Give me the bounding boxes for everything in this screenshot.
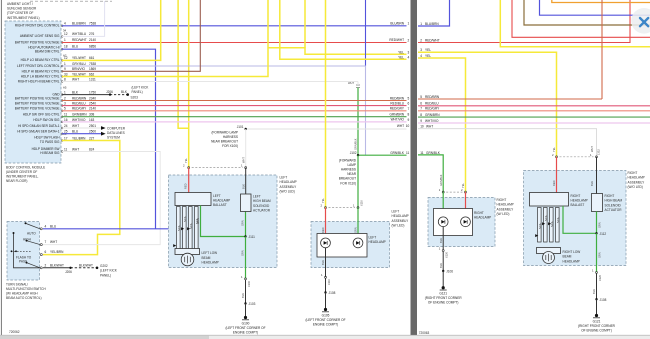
svg-text:(FORWARD LAMP: (FORWARD LAMP xyxy=(211,131,238,135)
svg-text:WHT/VIO: WHT/VIO xyxy=(72,118,86,122)
svg-text:WHT/VIO: WHT/VIO xyxy=(425,119,439,123)
svg-text:(LEFT KICK: (LEFT KICK xyxy=(132,85,150,89)
svg-text:1869: 1869 xyxy=(89,67,96,71)
top bundle wire BRN xyxy=(524,0,650,25)
svg-text:2: 2 xyxy=(321,204,323,208)
svg-text:RED/BLU: RED/BLU xyxy=(390,101,404,105)
switch HIGH contact xyxy=(27,241,40,245)
svg-text:AMBIENT LIGHT /: AMBIENT LIGHT / xyxy=(7,2,33,6)
svg-text:(W/O LED): (W/O LED) xyxy=(280,189,295,193)
svg-text:X120: X120 xyxy=(598,274,602,281)
wire BLK 1750 gnd with J206 splice and S203 xyxy=(62,94,110,96)
svg-text:5: 5 xyxy=(408,97,410,101)
svg-text:A5: A5 xyxy=(63,85,67,89)
svg-text:HEADLAMP: HEADLAMP xyxy=(369,240,386,244)
svg-text:1: 1 xyxy=(64,38,66,42)
wire BLK to J108 xyxy=(325,278,327,292)
wire GRN/BLK from connector down to J102 xyxy=(357,88,359,156)
svg-text:BLU: BLU xyxy=(72,130,79,134)
svg-text:BLK: BLK xyxy=(592,289,596,294)
svg-text:HDLP SW ON SIG: HDLP SW ON SIG xyxy=(33,118,60,122)
wire GRY/BLU 7538 to J102 column xyxy=(62,66,366,155)
led lamps inner box xyxy=(317,234,367,258)
svg-text:HEADLAMP: HEADLAMP xyxy=(202,260,219,264)
svg-text:2: 2 xyxy=(64,96,66,100)
splice J101 xyxy=(245,128,247,130)
svg-text:1: 1 xyxy=(64,91,66,95)
svg-text:ASSEMBLY: ASSEMBLY xyxy=(628,180,646,184)
svg-text:RIGHT FRONT DRL CONTROL: RIGHT FRONT DRL CONTROL xyxy=(15,24,60,28)
wire GRN/BLK row 11 from J102 to edge xyxy=(358,154,407,156)
wire YEL row3 to ballast column xyxy=(418,52,557,157)
wire RED/BLU row6 xyxy=(418,105,650,107)
svg-text:1: 1 xyxy=(590,153,592,157)
svg-text:YEL: YEL xyxy=(461,183,465,188)
svg-text:GRN: GRN xyxy=(598,252,602,258)
svg-text:2: 2 xyxy=(45,263,47,267)
wire WHT down to solenoid connector xyxy=(245,129,247,168)
left panel edge pin numbers xyxy=(406,22,410,156)
wire YEL/WHT 662 (up to page top) xyxy=(62,0,268,77)
svg-text:G100: G100 xyxy=(242,321,250,325)
svg-text:BREAKOUT: BREAKOUT xyxy=(339,177,356,181)
wire BLK to J108 right xyxy=(596,273,598,299)
svg-text:YEL: YEL xyxy=(398,55,404,59)
svg-text:LEFT: LEFT xyxy=(369,236,377,240)
svg-text:7538: 7538 xyxy=(89,21,96,25)
wire BLU from top to GRY/BLU transition xyxy=(365,0,367,66)
svg-text:1: 1 xyxy=(241,164,243,168)
page border left xyxy=(0,0,2,336)
svg-text:LEFT: LEFT xyxy=(392,210,400,214)
svg-text:OF ENGINE COMPT): OF ENGINE COMPT) xyxy=(581,328,612,332)
svg-text:RED/GRY: RED/GRY xyxy=(390,107,405,111)
svg-text:X100: X100 xyxy=(247,280,251,287)
wire BLK to J103 xyxy=(245,280,247,304)
wire GRN ballast to J111 xyxy=(201,206,246,237)
svg-text:BEAM: BEAM xyxy=(563,255,572,259)
wire GRN solenoid to J111 xyxy=(245,212,247,237)
svg-text:1: 1 xyxy=(408,22,410,26)
ballast pin columns NCA xyxy=(177,207,199,250)
svg-text:BLU: BLU xyxy=(72,44,79,48)
svg-text:J108: J108 xyxy=(600,298,607,302)
svg-text:10: 10 xyxy=(406,124,410,128)
svg-text:HDLP SW OFF SIG CTRL: HDLP SW OFF SIG CTRL xyxy=(23,113,60,117)
svg-text:X110: X110 xyxy=(327,279,331,285)
svg-text:2: 2 xyxy=(420,38,422,42)
wire RED/BRN row5 xyxy=(418,98,602,100)
wire BLK lamp return xyxy=(325,248,327,277)
right ballast pin columns NCA xyxy=(538,208,560,243)
wire YEL row4 to led lamp column xyxy=(418,58,466,192)
svg-text:3: 3 xyxy=(64,102,66,106)
left headlamp assembly (W/ LED) box xyxy=(311,222,390,268)
splice J106 xyxy=(442,270,444,272)
svg-text:GRN: GRN xyxy=(241,250,245,256)
connector X100 dashed row xyxy=(192,167,243,169)
svg-text:BATTERY POSITIVE VOLTAGE: BATTERY POSITIVE VOLTAGE xyxy=(15,40,60,44)
svg-text:HDLP LH BEAM RLY CTRL: HDLP LH BEAM RLY CTRL xyxy=(21,75,60,79)
close button xyxy=(631,8,650,34)
svg-text:6: 6 xyxy=(420,102,422,106)
svg-text:NCA: NCA xyxy=(189,223,193,229)
wire BLU/BRN 7538 (row 1) xyxy=(62,25,407,27)
switch AUTO contact xyxy=(26,224,40,229)
svg-text:(TOP CENTER OF: (TOP CENTER OF xyxy=(7,11,33,15)
svg-text:5: 5 xyxy=(64,107,66,111)
left headlamp ballast xyxy=(175,193,211,206)
svg-text:SUNLOAD SENSOR: SUNLOAD SENSOR xyxy=(7,7,37,11)
wire BRN/VIO 1869 (up to page top) xyxy=(62,0,200,71)
svg-text:16: 16 xyxy=(64,118,68,122)
wire RED/GRY row7 xyxy=(418,110,650,112)
right ballast pin marks xyxy=(542,222,545,225)
wire RED/BRN 2340 (row 5) xyxy=(62,100,407,102)
connector stub below right W/O LED box xyxy=(596,271,598,273)
svg-text:7: 7 xyxy=(45,240,47,244)
svg-text:2: 2 xyxy=(408,38,410,42)
svg-text:RED/BLU: RED/BLU xyxy=(425,102,439,106)
switch common rail xyxy=(14,233,41,268)
BCM wire id labels xyxy=(64,21,96,151)
svg-text:GRN/BRN: GRN/BRN xyxy=(72,113,87,117)
svg-text:LEFT: LEFT xyxy=(280,176,288,180)
svg-text:J108: J108 xyxy=(329,291,336,295)
svg-text:ENGINE COMPT): ENGINE COMPT) xyxy=(313,322,338,326)
svg-text:HIGH BEAM: HIGH BEAM xyxy=(605,199,623,203)
bottom scrollbar thumb xyxy=(0,336,209,339)
svg-text:YEL/WHT: YEL/WHT xyxy=(72,56,86,60)
svg-text:SYSTEM: SYSTEM xyxy=(107,136,120,140)
svg-text:8: 8 xyxy=(64,77,66,81)
svg-text:2340: 2340 xyxy=(89,96,96,100)
wire YEL/WHT 661 staircase to ballast feed xyxy=(62,0,161,60)
svg-text:18: 18 xyxy=(64,44,68,48)
svg-text:BLK: BLK xyxy=(241,184,245,189)
svg-text:BLK/WHT: BLK/WHT xyxy=(50,263,64,267)
left low beam headlamp lamp xyxy=(175,249,200,255)
svg-text:MULTI-FUNCTION SWITCH: MULTI-FUNCTION SWITCH xyxy=(6,287,46,291)
svg-text:WHT: WHT xyxy=(348,81,354,85)
connector X110 dashed row xyxy=(329,207,356,209)
svg-text:4: 4 xyxy=(45,224,47,228)
svg-text:BALLAST: BALLAST xyxy=(571,203,585,207)
svg-text:RED/WHT: RED/WHT xyxy=(389,38,404,42)
svg-text:1: 1 xyxy=(420,22,422,26)
svg-text:S203: S203 xyxy=(131,96,139,100)
svg-text:RIGHT HDLP HI BEAM CTRL: RIGHT HDLP HI BEAM CTRL xyxy=(18,80,60,84)
svg-text:10: 10 xyxy=(420,125,424,129)
svg-text:FOR X100): FOR X100) xyxy=(222,144,238,148)
wire YEL top feed for row4 pin xyxy=(280,0,407,59)
svg-text:GRN: GRN xyxy=(354,227,358,233)
svg-text:ASSEMBLY: ASSEMBLY xyxy=(497,207,515,211)
wire BLU/BRN right row1 up to top xyxy=(418,0,450,26)
svg-text:GRN: GRN xyxy=(598,222,602,228)
led lamp L1 xyxy=(321,238,331,248)
svg-text:2: 2 xyxy=(183,164,185,168)
svg-text:(RIGHT FRONT CORNER: (RIGHT FRONT CORNER xyxy=(578,324,616,328)
entry arrow into ballast pins xyxy=(173,227,177,230)
splice J102 xyxy=(357,154,359,156)
right panel edge pin numbers and labels xyxy=(420,22,440,155)
svg-text:J206: J206 xyxy=(65,270,72,274)
svg-text:WHT: WHT xyxy=(590,146,594,152)
left high beam solenoid actuator xyxy=(241,194,252,212)
wire WHT row10 from J101 to edge xyxy=(246,128,407,130)
svg-text:ASSEMBLY: ASSEMBLY xyxy=(280,185,298,189)
right led lamp L2 xyxy=(461,217,471,227)
svg-text:RIGHT: RIGHT xyxy=(497,198,507,202)
svg-text:RED/WHT: RED/WHT xyxy=(72,38,87,42)
svg-text:WHT: WHT xyxy=(397,124,404,128)
svg-text:INSTRUMENT PANEL): INSTRUMENT PANEL) xyxy=(7,16,40,20)
svg-text:7538: 7538 xyxy=(89,62,96,66)
svg-text:G121: G121 xyxy=(439,292,447,296)
left headlamp assembly (W/O LED) box xyxy=(169,175,278,268)
svg-text:J102: J102 xyxy=(350,151,357,155)
wire WHT row10 to solenoid column xyxy=(418,129,597,157)
svg-text:RIGHT: RIGHT xyxy=(628,171,638,175)
ground G105 xyxy=(324,308,327,311)
svg-text:PANEL): PANEL) xyxy=(100,273,111,277)
connector stub below right led box xyxy=(442,250,444,252)
svg-text:1: 1 xyxy=(439,247,441,251)
svg-text:COMPUTER: COMPUTER xyxy=(107,127,126,131)
svg-text:TO PASS SIG: TO PASS SIG xyxy=(40,140,60,144)
svg-text:1: 1 xyxy=(592,268,594,272)
svg-text:LEFT: LEFT xyxy=(213,194,221,198)
wire GRN into right led lamp1 xyxy=(442,192,444,217)
svg-text:2501: 2501 xyxy=(89,124,96,128)
svg-text:WHT: WHT xyxy=(72,124,79,128)
svg-text:7: 7 xyxy=(420,107,422,111)
splice J112 xyxy=(595,232,597,234)
svg-text:YEL: YEL xyxy=(398,50,404,54)
BCM pin name labels xyxy=(15,24,60,156)
svg-text:LEFT FRONT DRL CONTROL: LEFT FRONT DRL CONTROL xyxy=(17,64,60,68)
svg-text:24: 24 xyxy=(64,124,68,128)
wire YEL jog feeding pin3 row xyxy=(268,48,407,55)
right low beam headlamp lamp xyxy=(537,248,561,254)
svg-text:HIGH BEAM: HIGH BEAM xyxy=(253,199,271,203)
svg-text:6856: 6856 xyxy=(89,44,96,48)
svg-text:4: 4 xyxy=(64,21,66,25)
svg-text:WHT: WHT xyxy=(50,240,57,244)
svg-text:HI SPD GMLAN SER DATA-1: HI SPD GMLAN SER DATA-1 xyxy=(18,124,60,128)
svg-text:11: 11 xyxy=(420,151,424,155)
svg-text:8: 8 xyxy=(408,113,410,117)
svg-text:BATTERY POSITIVE VOLTAGE: BATTERY POSITIVE VOLTAGE xyxy=(15,102,60,106)
right led lamp L1 xyxy=(438,217,448,227)
page divider bar xyxy=(411,0,418,336)
splice J103 xyxy=(244,302,246,304)
svg-text:NEAR: NEAR xyxy=(347,172,356,176)
connector X120 dashed row xyxy=(446,191,462,193)
svg-text:163: 163 xyxy=(89,118,94,122)
wire BLK into right solenoid xyxy=(596,157,598,194)
svg-text:BLK: BLK xyxy=(590,181,594,186)
svg-text:1332: 1332 xyxy=(596,149,600,155)
right headlamp assembly (W/O LED) box xyxy=(524,171,627,266)
wire RED into ballast xyxy=(188,168,190,193)
svg-text:HEADLAMP: HEADLAMP xyxy=(280,180,297,184)
svg-text:LEFT LOW: LEFT LOW xyxy=(202,251,218,255)
wire GRN/BLK row11 to led lamp column xyxy=(418,155,443,192)
svg-text:LAMP: LAMP xyxy=(347,163,356,167)
splice J108 right xyxy=(595,298,597,300)
svg-text:BEAM: BEAM xyxy=(202,256,211,260)
top bundle wire YEL xyxy=(500,0,650,47)
svg-text:6: 6 xyxy=(45,250,47,254)
right led lamps inner box xyxy=(434,209,473,236)
svg-text:INSTRUMENT PANEL,: INSTRUMENT PANEL, xyxy=(6,175,38,179)
svg-text:RIGHT: RIGHT xyxy=(571,194,581,198)
svg-text:YEL/BRN: YEL/BRN xyxy=(50,250,64,254)
svg-text:WHT: WHT xyxy=(241,157,245,163)
svg-text:4: 4 xyxy=(408,55,410,59)
left panel edge wire name labels xyxy=(389,21,405,155)
svg-text:RIGHT: RIGHT xyxy=(474,211,484,215)
svg-text:GRN/BLK: GRN/BLK xyxy=(439,174,443,186)
svg-text:1: 1 xyxy=(321,273,323,277)
svg-text:ENGINE COMPT): ENGINE COMPT) xyxy=(233,330,258,334)
wire GRN right ballast to J112 xyxy=(563,206,597,233)
svg-text:RED/BRN: RED/BRN xyxy=(390,96,405,100)
svg-text:720062: 720062 xyxy=(9,330,20,334)
turn signal / multi-function switch S1 box xyxy=(7,222,40,281)
svg-text:BALLAST: BALLAST xyxy=(213,203,227,207)
svg-text:1: 1 xyxy=(353,204,355,208)
svg-text:7: 7 xyxy=(408,107,410,111)
svg-text:HEADLAMP: HEADLAMP xyxy=(213,199,230,203)
svg-text:(LEFT FRONT CORNER OF: (LEFT FRONT CORNER OF xyxy=(305,318,345,322)
svg-text:WHT/VIO: WHT/VIO xyxy=(391,118,405,122)
wire BLK into solenoid xyxy=(245,168,247,194)
svg-text:1: 1 xyxy=(439,188,441,192)
svg-text:NCA: NCA xyxy=(544,215,548,221)
svg-text:ACTUATOR: ACTUATOR xyxy=(605,208,623,212)
switch pin stubs xyxy=(40,228,42,269)
wire RED into led lamp 1 xyxy=(325,208,327,238)
svg-text:NCA: NCA xyxy=(550,221,554,227)
svg-text:720063: 720063 xyxy=(419,331,430,335)
svg-text:2500: 2500 xyxy=(89,130,96,134)
svg-text:RIGHT LOW: RIGHT LOW xyxy=(563,250,581,254)
svg-text:(FORWARD: (FORWARD xyxy=(339,158,357,162)
svg-text:11: 11 xyxy=(406,151,410,155)
svg-text:WHT: WHT xyxy=(72,77,79,81)
wire WHT/BLU 276 xyxy=(62,1,105,36)
svg-text:OF ENGINE COMPT): OF ENGINE COMPT) xyxy=(428,301,459,305)
svg-text:YEL: YEL xyxy=(321,198,325,203)
svg-text:J111: J111 xyxy=(249,235,256,239)
svg-text:(W/ HEADLAMP HIGH: (W/ HEADLAMP HIGH xyxy=(6,292,38,296)
wire WHT 2501 gmlan to arrow xyxy=(62,127,101,129)
svg-text:X110: X110 xyxy=(360,200,364,206)
BCM pin stubs xyxy=(61,25,63,153)
svg-text:9: 9 xyxy=(420,119,422,123)
wire BLK to ground xyxy=(245,304,247,318)
wire GRN/BRN 308 (row 8) xyxy=(62,116,407,118)
ground G100 xyxy=(244,316,247,319)
svg-text:TURN SIGNAL/: TURN SIGNAL/ xyxy=(6,282,28,286)
svg-text:NCA: NCA xyxy=(556,217,560,223)
wire BLU 2500 gmlan to arrow xyxy=(62,133,101,135)
svg-text:RED/BRN: RED/BRN xyxy=(72,96,87,100)
svg-text:GRN/BLK: GRN/BLK xyxy=(390,151,405,155)
svg-text:GRN/BRN: GRN/BRN xyxy=(425,113,440,117)
svg-text:HDLP HI BEAM RLY CTRL: HDLP HI BEAM RLY CTRL xyxy=(22,69,60,73)
svg-text:AUTO: AUTO xyxy=(27,232,36,236)
svg-text:RED/WHT: RED/WHT xyxy=(425,38,440,42)
wire BLU 6856 to switch AUTO xyxy=(62,49,156,229)
svg-text:1: 1 xyxy=(64,62,66,66)
wire WHT/VIO row9 xyxy=(418,122,650,124)
svg-text:HEADLAMP: HEADLAMP xyxy=(497,203,514,207)
wire RED/WHT right row2 up at far right xyxy=(418,0,630,43)
svg-text:RED: RED xyxy=(184,183,188,189)
svg-text:GRN/BRN: GRN/BRN xyxy=(390,113,405,117)
svg-text:HEADLAMP: HEADLAMP xyxy=(474,216,491,220)
svg-text:2140: 2140 xyxy=(89,107,96,111)
svg-text:RED/GRY: RED/GRY xyxy=(72,107,87,111)
svg-text:BLU/BRN: BLU/BRN xyxy=(390,21,404,25)
svg-text:(W/O LED): (W/O LED) xyxy=(628,185,643,189)
svg-text:GRN/BLK: GRN/BLK xyxy=(353,138,357,150)
wire YEL ballast feed from page top xyxy=(178,0,189,128)
svg-text:(RIGHT FRONT CORNER: (RIGHT FRONT CORNER xyxy=(425,296,463,300)
wire RED/BLU 2540 (row 6) xyxy=(62,105,407,107)
svg-text:J103: J103 xyxy=(249,302,256,306)
bottom scrollbar track xyxy=(0,336,650,339)
wire RED into right ballast xyxy=(556,157,558,193)
svg-text:RED/GRY: RED/GRY xyxy=(425,107,440,111)
wire BLU switch AUTO to ballast pin xyxy=(43,228,175,230)
wire RED/GRY 2140 (row 7) xyxy=(62,110,407,112)
svg-text:WHT: WHT xyxy=(426,125,433,129)
svg-text:G202: G202 xyxy=(100,264,108,268)
svg-text:NEAR BREAKOUT: NEAR BREAKOUT xyxy=(211,140,238,144)
wire YEL second ballast feed xyxy=(188,0,190,168)
svg-text:AMBIENT LIGHT SENS SIG: AMBIENT LIGHT SENS SIG xyxy=(20,34,60,38)
svg-text:J106: J106 xyxy=(446,270,453,274)
top bundle wire ORN xyxy=(552,0,650,3)
connector stub below box xyxy=(245,278,247,280)
svg-text:(LEFT FRONT CORNER OF: (LEFT FRONT CORNER OF xyxy=(225,326,265,330)
svg-text:NCA: NCA xyxy=(538,223,542,229)
svg-text:BRN/VIO: BRN/VIO xyxy=(72,67,85,71)
svg-text:BEAM DIM CTRL: BEAM DIM CTRL xyxy=(35,50,60,54)
svg-text:2: 2 xyxy=(552,153,554,157)
wire GRN right solenoid to J112 xyxy=(596,212,598,234)
svg-text:FOR X110): FOR X110) xyxy=(340,181,356,185)
svg-text:WHT/BLU: WHT/BLU xyxy=(72,32,87,36)
svg-text:X120: X120 xyxy=(445,251,449,258)
wire WHT 824 dimmer hi beam to switch HIGH xyxy=(43,152,160,245)
svg-text:SOLENOID: SOLENOID xyxy=(253,204,270,208)
svg-text:RED: RED xyxy=(321,227,325,233)
svg-text:308: 308 xyxy=(89,113,94,117)
wire BLK to J106 xyxy=(442,252,444,272)
wire BLK to ground xyxy=(325,293,327,310)
splice J108 xyxy=(324,291,326,293)
right headlamp ballast xyxy=(530,193,569,207)
svg-text:HDLP LO BEAM RLY CTRL: HDLP LO BEAM RLY CTRL xyxy=(21,58,60,62)
svg-text:25: 25 xyxy=(64,130,68,134)
svg-text:BEAM AUTO CONTROL): BEAM AUTO CONTROL) xyxy=(6,296,42,300)
